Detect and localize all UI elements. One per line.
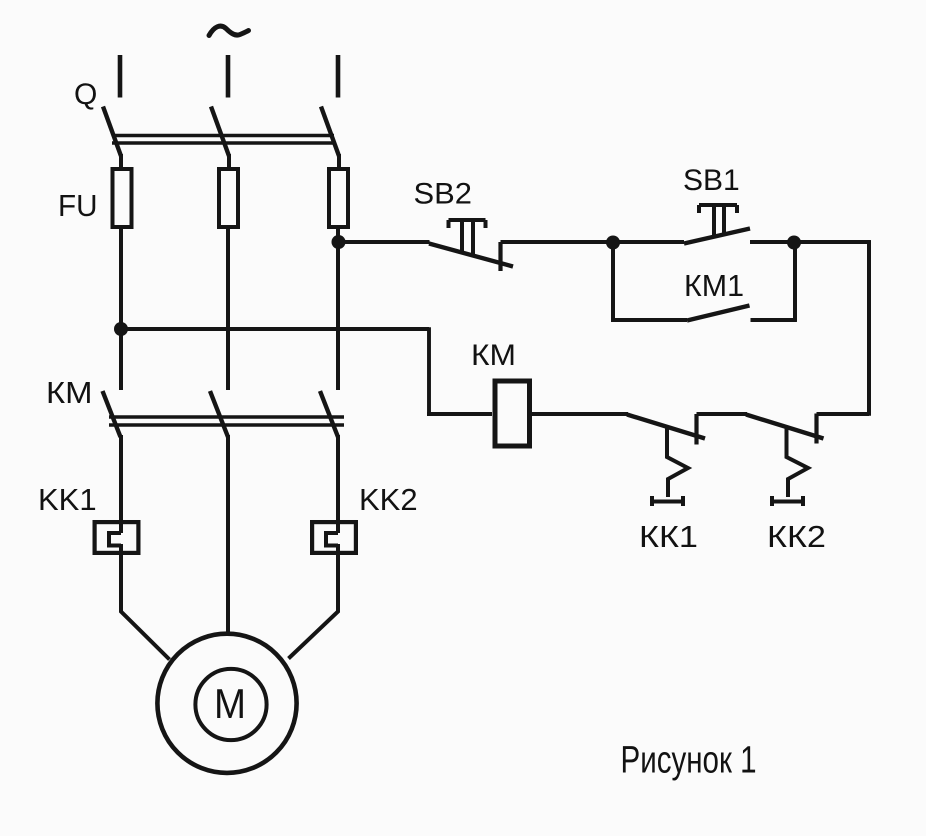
- wire L1 contact to heater KK1: [119, 435, 123, 533]
- wire KM1 branch left vertical: [611, 243, 615, 322]
- fuse FU1: [113, 169, 132, 227]
- contactor KM pole 2 blade: [210, 391, 228, 437]
- junction node on L1 control tap: [114, 322, 128, 336]
- wire contact KK2 to right bus: [817, 412, 870, 416]
- svg-text:KK1: KK1: [38, 482, 97, 517]
- wire L2 fuse to contact KM: [226, 229, 230, 390]
- AC supply tilde symbol: [209, 26, 249, 35]
- motor M outer circle: [157, 634, 296, 773]
- svg-text:КМ1: КМ1: [684, 268, 744, 303]
- switch Q linkage bar: [112, 136, 334, 144]
- svg-text:SB2: SB2: [414, 178, 473, 211]
- thermal contact KK1 blade: [627, 415, 705, 439]
- auxiliary contact KM1 blade: [687, 306, 750, 321]
- wire L1 heater to motor: [121, 544, 170, 660]
- junction node on L3 control tap: [332, 235, 346, 249]
- button SB1 blade: [684, 229, 750, 244]
- button SB2 blade: [429, 244, 513, 267]
- wire L3 contact to heater KK2: [336, 435, 340, 533]
- contactor KM pole 3 blade: [320, 391, 338, 437]
- svg-text:KK2: KK2: [359, 482, 418, 517]
- wire L2 switch to fuse: [227, 154, 231, 168]
- heater element KK1: [95, 522, 139, 553]
- wire SB2 to SB1: [501, 240, 685, 244]
- svg-text:М: М: [214, 680, 246, 727]
- thermal contact KK2 fixed terminal: [814, 414, 818, 444]
- phase L1 supply stub: [118, 55, 123, 98]
- contactor KM pole 1 blade: [103, 391, 121, 437]
- svg-text:КМ: КМ: [471, 339, 516, 372]
- thermal contact KK1 fixed terminal: [694, 414, 698, 445]
- button SB2 fixed terminal: [498, 242, 502, 271]
- svg-text:КК2: КК2: [767, 519, 826, 554]
- button SB1 actuator: [699, 205, 737, 236]
- motor M inner circle: [195, 669, 266, 740]
- svg-text:FU: FU: [58, 188, 98, 223]
- svg-text:КМ: КМ: [46, 375, 93, 410]
- switch Q pole 3 blade: [321, 107, 339, 157]
- switch Q pole 2 blade: [211, 107, 229, 157]
- wire L3 heater to motor: [289, 544, 339, 659]
- wire L3 tap to SB2: [339, 240, 430, 244]
- wire coil KM to contact KK1: [532, 412, 629, 416]
- wire control tap L1 horizontal: [121, 327, 429, 331]
- wire L1 switch to fuse: [119, 154, 123, 168]
- phase L3 supply stub: [336, 55, 341, 98]
- wire L1 fuse to contact KM: [119, 229, 123, 390]
- wire L3 fuse to contact KM: [336, 229, 340, 390]
- wire SB1 to junction: [750, 240, 794, 244]
- switch Q pole 1 blade: [103, 107, 121, 157]
- phase L2 supply stub: [226, 55, 231, 98]
- wire KM1 branch bottom: [611, 318, 687, 322]
- svg-text:Рисунок 1: Рисунок 1: [621, 740, 757, 782]
- wire top rail right: [794, 240, 871, 244]
- junction node SB1 right: [787, 236, 801, 250]
- wire control left vertical: [427, 327, 431, 414]
- svg-text:SB1: SB1: [683, 164, 740, 197]
- wire to coil KM: [427, 412, 492, 416]
- wire KM1 branch right vertical: [793, 243, 797, 322]
- contactor KM linkage bar: [109, 417, 344, 425]
- thermal contact KK2 blade: [746, 415, 824, 439]
- wire L3 switch to fuse: [337, 154, 341, 168]
- wire contact KK1 to contact KK2: [697, 412, 748, 416]
- svg-text:КК1: КК1: [639, 519, 698, 554]
- coil KM: [495, 381, 530, 446]
- wire right bus vertical: [867, 240, 871, 416]
- heater element KK2: [312, 522, 356, 553]
- fuse FU3: [329, 169, 348, 227]
- wire KM1 to right vertical: [751, 318, 797, 322]
- wire L2 contact to motor: [226, 435, 230, 636]
- fuse FU2: [219, 169, 238, 227]
- thermal release KK2 symbol: [772, 426, 808, 506]
- thermal release KK1 symbol: [652, 426, 688, 506]
- junction node SB1 left: [606, 236, 620, 250]
- button SB2 actuator: [449, 220, 486, 257]
- svg-text:Q: Q: [74, 78, 97, 111]
